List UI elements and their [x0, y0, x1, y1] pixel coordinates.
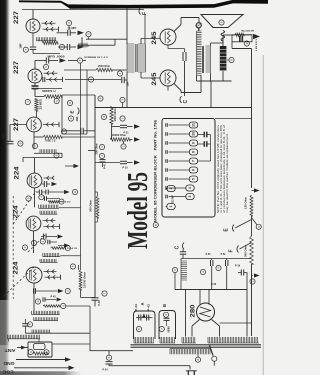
svg-text:245: 245 — [151, 31, 158, 45]
power plug — [186, 370, 197, 372]
bus wire rail — [95, 107, 252, 109]
svg-text:P-40: P-40 — [104, 163, 107, 169]
bus wire bias — [80, 63, 82, 270]
cond ref 44 — [216, 265, 221, 270]
transformer T2 secondary d — [208, 337, 259, 343]
cond ref 31 — [120, 116, 125, 121]
cond ref 10 — [61, 129, 66, 134]
tube V2 227 — [28, 69, 42, 83]
scan edge shadow bottom-left — [0, 371, 86, 375]
gang condenser dashed link — [12, 196, 14, 299]
tube V7 245 — [160, 29, 176, 45]
capacitor C6 — [80, 128, 82, 134]
svg-text:300 Ohm: 300 Ohm — [245, 245, 248, 257]
wire V8 cathode — [167, 86, 169, 91]
svg-text:P-24: P-24 — [102, 369, 108, 372]
svg-text:P-4 1/2: P-4 1/2 — [69, 247, 78, 250]
svg-text:.25 MEG: .25 MEG — [40, 99, 43, 110]
field coil FC — [220, 46, 227, 71]
transformer T2 secondary a — [134, 337, 154, 343]
svg-text:P-53: P-53 — [206, 254, 212, 256]
wire V9 fil right — [212, 320, 220, 327]
speaker voice coil — [221, 31, 225, 41]
capacitor C2 grid — [67, 30, 69, 36]
svg-text:TUBE 1 S: TUBE 1 S — [45, 141, 56, 143]
capacitor C14 P-21 — [120, 124, 127, 126]
svg-text:P-42: P-42 — [148, 303, 151, 311]
svg-text:10000: 10000 — [81, 36, 84, 46]
svg-text:20000 Ohm: 20000 Ohm — [112, 135, 126, 137]
svg-text:may be used in the earlier mod: may be used in the earlier models as rep… — [226, 133, 229, 213]
cond ref 9 — [68, 116, 73, 121]
tube V3 arrows — [43, 124, 59, 126]
wire rectifier rail — [175, 289, 247, 291]
cond ref 17 — [23, 47, 28, 52]
arrow P-21 — [134, 124, 140, 129]
wire shield box stage2 — [61, 95, 63, 134]
transformer T2 secondary b — [160, 337, 175, 343]
wire V6 plate — [33, 283, 35, 311]
tube V6 224 — [26, 267, 42, 283]
cond ref 19 — [26, 196, 31, 201]
arrow mid left — [65, 165, 74, 167]
svg-text:C: C — [183, 99, 189, 103]
wire V9 plate — [199, 290, 201, 305]
transformer T2 core — [131, 344, 262, 346]
transformer T1 secondary — [138, 44, 146, 72]
svg-text:P-30: P-30 — [98, 300, 101, 306]
cond ref 2 — [66, 20, 71, 25]
condenser 10 — [189, 131, 197, 137]
svg-text:5: 5 — [192, 178, 196, 180]
resistor R9 — [43, 305, 60, 307]
arrow gang section 1 — [78, 31, 85, 36]
cond ref 41 — [250, 279, 255, 284]
wire V8 plate — [174, 84, 181, 91]
capacitor C12 — [22, 323, 29, 325]
arrow gang section 1b — [78, 45, 85, 50]
tube V2 arrows — [44, 72, 58, 74]
wire T1 sec to V7 grid — [140, 39, 142, 45]
resistor R17 — [96, 196, 99, 218]
cond ref 36 — [219, 20, 224, 25]
cond ref 12 — [88, 77, 93, 82]
svg-text:280: 280 — [190, 304, 197, 318]
svg-text:P-10: P-10 — [122, 167, 128, 170]
resistor R3 — [44, 95, 62, 98]
svg-text:FIELD 2450 OHM: FIELD 2450 OHM — [241, 30, 254, 33]
svg-text:1MF: 1MF — [2, 134, 5, 139]
wire V7 cathode — [167, 45, 169, 49]
condenser block box — [162, 119, 215, 218]
capacitor C8 1MF — [7, 140, 14, 142]
wire V5 plate — [33, 231, 35, 253]
arrow trimmer 4 — [52, 182, 58, 186]
tube V9 280 — [197, 303, 215, 321]
condenser 7 — [189, 158, 197, 164]
cond ref 42 — [172, 267, 177, 272]
cond ref R7 — [59, 199, 64, 204]
svg-text:F: F — [229, 249, 235, 252]
capacitor C22 P-52 — [225, 260, 227, 266]
capacitor C3 — [66, 44, 68, 50]
svg-text:3: 3 — [188, 195, 192, 197]
svg-text:224: 224 — [14, 166, 21, 180]
resistor R4 plate — [96, 68, 112, 71]
svg-text:GND: GND — [3, 361, 15, 366]
switch SW1 — [210, 346, 214, 356]
coil L3 — [39, 205, 59, 209]
arrow B+ field — [244, 34, 252, 36]
cond ref 13 — [120, 97, 125, 102]
tube V5 arrows — [43, 220, 56, 222]
cond ref 43 — [200, 269, 205, 274]
condenser 6 — [189, 167, 197, 173]
tube V4 arrows — [44, 177, 54, 179]
svg-text:1000 Ohm: 1000 Ohm — [114, 109, 117, 122]
wire T1 primary bottom — [126, 72, 128, 108]
cond ref 35 — [196, 22, 201, 27]
cond ref 30 — [101, 114, 106, 119]
resistor R2 — [78, 44, 88, 47]
coil L1 — [37, 37, 57, 41]
bus wire vertical A — [94, 95, 96, 298]
coil L4b — [40, 259, 58, 262]
wire V2 grid up — [34, 61, 36, 70]
capacitor C9c — [39, 195, 44, 200]
svg-text:7: 7 — [192, 160, 196, 162]
svg-text:300 Ohm: 300 Ohm — [91, 200, 93, 212]
wire hv right — [246, 273, 248, 290]
svg-text:200 Ohm: 200 Ohm — [96, 144, 99, 155]
cond block caps — [203, 132, 205, 138]
svg-text:4: 4 — [188, 187, 192, 189]
transformer T3 core — [202, 46, 204, 73]
condenser 11 — [189, 122, 197, 128]
transformer T1 core — [135, 44, 137, 72]
coil L5b — [34, 317, 58, 320]
resistor R10 vertical — [79, 270, 82, 290]
condenser 4 — [186, 185, 194, 191]
cond ref 24b — [65, 288, 70, 293]
svg-text:P-19: P-19 — [235, 265, 241, 268]
capacitor C9 tuning — [43, 181, 45, 187]
capacitor C11b — [35, 299, 40, 304]
capacitor C13 bus end — [92, 297, 99, 299]
coil L2 — [40, 149, 57, 153]
wire voice coil loop — [222, 41, 224, 43]
cond ref 22 — [31, 240, 36, 245]
wire stage3 top — [36, 88, 62, 90]
wire stage3 bottom — [23, 157, 62, 159]
wire field coil — [222, 35, 224, 46]
choke can B — [159, 311, 176, 340]
svg-text:AMPERITE 1-A: AMPERITE 1-A — [42, 90, 56, 93]
svg-text:P-33: P-33 — [211, 283, 217, 286]
svg-text:.1MF: .1MF — [76, 116, 79, 122]
cond ref 25 — [27, 322, 32, 327]
arrow stage6 b — [57, 298, 62, 302]
terminal C — [180, 96, 182, 103]
wire stage3 to bus — [88, 150, 95, 152]
scan fold line right — [262, 55, 264, 375]
local-distance coupler box — [28, 342, 52, 357]
terminal F — [139, 8, 141, 15]
cond ref 5 — [77, 58, 82, 63]
cond ref 48 — [195, 357, 200, 362]
svg-text:2: 2 — [169, 187, 173, 189]
svg-text:1 MF 200 V: 1 MF 200 V — [256, 38, 258, 51]
capacitor C23 P-24 — [106, 361, 113, 363]
cond ref 20 — [72, 189, 77, 194]
transformer T3 secondary — [206, 46, 211, 73]
arrow gang section 2 — [60, 58, 67, 63]
svg-text:11: 11 — [192, 123, 196, 127]
wire C-bias — [184, 61, 186, 96]
wire C21 — [211, 259, 213, 261]
wire R5 to tube — [36, 111, 38, 117]
wire V7 plate — [174, 25, 181, 32]
svg-text:P-41: P-41 — [135, 303, 138, 311]
wire L7 ends — [8, 339, 10, 342]
cond ref 6 — [43, 64, 48, 69]
cond ref 47 — [159, 326, 164, 331]
svg-text:ANT: ANT — [4, 348, 15, 353]
wire C22 — [226, 259, 228, 261]
transformer T1 primary — [127, 44, 135, 72]
resistor R11 local — [33, 352, 48, 355]
svg-text:1: 1 — [169, 205, 173, 207]
resistor R12 1000ohm — [110, 106, 113, 124]
capacitor C1 1MF — [30, 46, 36, 48]
svg-text:B: B — [162, 304, 167, 307]
svg-text:10000 Ohm: 10000 Ohm — [84, 272, 87, 288]
svg-text:8: 8 — [192, 151, 196, 153]
capacitor C5 cathode — [32, 83, 39, 97]
cond ref 18 — [54, 153, 59, 158]
cond ref R9 — [61, 303, 66, 308]
cond ref 17b — [32, 143, 37, 148]
transformer T2 primary — [170, 349, 210, 355]
arrow trimmer 5 — [58, 234, 64, 238]
arrow stage6 a — [58, 289, 64, 293]
svg-text:MODEL 95 CONDENSER BLOCK PA: MODEL 95 CONDENSER BLOCK PART No. 1796 — [154, 120, 158, 222]
arrow R13 — [134, 137, 140, 142]
coil L4 — [43, 253, 60, 257]
coil L7 ant primary — [8, 335, 41, 339]
wire ct link — [220, 322, 252, 324]
svg-text:MFD .0005: MFD .0005 — [48, 57, 66, 59]
wire V1 plate down — [32, 33, 34, 46]
capacitor C10b — [47, 240, 49, 244]
can B cap — [164, 317, 170, 319]
coil L6 ant secondary — [32, 330, 51, 334]
tube V4 224 — [27, 173, 42, 188]
condenser 8 — [189, 149, 197, 155]
wire V9 fil left — [192, 320, 200, 327]
resistor R7 — [48, 201, 59, 203]
cond ref 40 — [256, 224, 261, 229]
svg-text:.5 MF: .5 MF — [68, 28, 78, 30]
tube V3 227 — [27, 117, 42, 132]
can A arrow — [142, 313, 145, 317]
svg-text:2500 Ohm: 2500 Ohm — [98, 65, 110, 68]
cond ref 33 — [99, 144, 104, 149]
wire right bus top — [231, 42, 233, 49]
arrow stage5 b — [64, 243, 70, 247]
wire row1 to bus — [86, 38, 127, 40]
wire T3 bottom — [196, 76, 198, 82]
capacitor C7 bypass — [121, 77, 123, 83]
svg-text:10: 10 — [192, 132, 196, 136]
arrow stage4 b — [64, 190, 70, 194]
wire box top to bus — [215, 118, 252, 120]
condenser 3 — [186, 194, 194, 200]
cond ref 27 — [102, 291, 107, 296]
svg-text:150 Ohm: 150 Ohm — [245, 197, 248, 209]
resistor R6 — [43, 135, 62, 138]
coil L3b — [40, 211, 58, 214]
arrow P-10 — [134, 160, 140, 165]
cond ref 16 — [18, 141, 23, 146]
svg-text:E: E — [70, 110, 75, 113]
cond ref 45 — [136, 326, 141, 331]
capacitor C15 P-40 — [100, 159, 106, 161]
coil L8 det choke — [181, 261, 187, 281]
wire T1 sec to V8 grid — [140, 72, 142, 78]
resistor R14 field — [235, 33, 244, 36]
tube V6 arrows — [44, 271, 57, 273]
svg-text:227: 227 — [13, 60, 20, 74]
capacitor C4 — [45, 58, 47, 64]
resistor R15 — [250, 195, 253, 216]
wire V4 grid up — [34, 158, 36, 174]
cond ref 37 — [196, 23, 201, 28]
capacitor C18 — [239, 36, 241, 42]
wire coupler to bus — [52, 343, 90, 345]
arrow divider top — [252, 190, 255, 192]
resistor R1 — [42, 41, 58, 44]
cond ref 39 — [244, 41, 249, 46]
choke can A — [134, 311, 156, 339]
svg-text:1/2 MF: 1/2 MF — [173, 194, 175, 203]
wire ant row — [26, 332, 91, 334]
cond ref 3 — [86, 32, 91, 37]
svg-text:6: 6 — [192, 169, 196, 171]
cond ref 29 — [28, 349, 33, 354]
condenser 1 — [167, 204, 175, 210]
svg-text:P-4 1/2: P-4 1/2 — [63, 201, 72, 204]
svg-text:P-43: P-43 — [50, 295, 56, 298]
svg-text:C: C — [175, 245, 181, 249]
tube V8 245 — [160, 70, 176, 86]
capacitor C19 P-19 — [240, 270, 242, 276]
wire V3 grid left — [10, 124, 27, 126]
wire V3 plate — [33, 132, 35, 137]
wire V4 plate — [34, 188, 36, 207]
coil L5 — [32, 311, 60, 315]
svg-text:500M: 500M — [169, 326, 171, 332]
wire cord run — [109, 365, 190, 367]
condenser 5 — [189, 176, 197, 182]
svg-text:1MF: 1MF — [19, 43, 23, 49]
cond ref 21 — [40, 239, 45, 244]
speaker cone — [201, 15, 243, 28]
cond ref 34 — [99, 153, 104, 158]
capacitor C10 tuning — [43, 234, 45, 240]
capacitor C23 P-24 ref — [106, 355, 111, 360]
wire det top — [181, 258, 252, 260]
svg-text:B: B — [154, 224, 158, 226]
capacitor C11 P-43 — [33, 288, 35, 294]
scan edge shadow left strip — [0, 0, 10, 375]
wire gnd rail left — [90, 350, 134, 352]
resistor R16 — [250, 236, 254, 264]
wire hv left — [185, 290, 187, 337]
svg-text:245: 245 — [151, 72, 158, 86]
resistor R8 — [51, 247, 66, 249]
cond ref 23 — [22, 245, 27, 250]
wire B+ top rail — [22, 9, 144, 11]
resistor R13 20000 — [110, 138, 130, 141]
cond ref 15 — [54, 98, 59, 103]
capacitor C21 P-53 — [210, 260, 212, 266]
wire C1 stub — [32, 49, 34, 53]
svg-text:9: 9 — [192, 142, 196, 144]
capacitor C20 — [180, 251, 186, 253]
can A caps — [138, 315, 140, 321]
hum cap box — [232, 35, 252, 42]
capacitor C9b grid — [38, 190, 40, 195]
condenser 2 — [167, 186, 175, 192]
transformer T3 primary — [197, 31, 202, 76]
cond block ref B — [153, 222, 158, 227]
cond ref 4 — [59, 44, 64, 49]
cond ref 11 — [117, 71, 122, 76]
svg-text:A: A — [140, 302, 145, 305]
tube V1 grid/cathode arrows — [42, 22, 56, 24]
capacitor C16 P-10 — [120, 160, 127, 162]
svg-text:LOC: LOC — [2, 369, 14, 374]
cond ref 46 — [163, 312, 168, 317]
capacitor C17 bias — [182, 52, 184, 61]
cond ref 26 — [70, 264, 75, 269]
transformer T2 secondary c — [182, 337, 196, 343]
tube V5 224 — [26, 216, 41, 231]
condenser 9 — [189, 140, 197, 146]
svg-text:P-52: P-52 — [221, 254, 227, 256]
cond ref 13b — [98, 96, 103, 101]
cond ref 8 — [67, 100, 72, 105]
svg-text:SCREEN 22 1-2 V: SCREEN 22 1-2 V — [84, 57, 109, 59]
resistor R5 vertical — [35, 98, 38, 111]
cond ref 38 — [229, 57, 234, 62]
svg-text:227: 227 — [13, 10, 20, 24]
svg-text:Model 95: Model 95 — [123, 172, 154, 249]
cond ref R8 — [65, 246, 70, 251]
cond ref 14 — [25, 99, 30, 104]
wire bus to power — [251, 264, 253, 336]
tube V1 227 — [26, 19, 40, 33]
scan edge black bar top — [19, 0, 268, 9]
cond ref 32 — [121, 144, 126, 149]
